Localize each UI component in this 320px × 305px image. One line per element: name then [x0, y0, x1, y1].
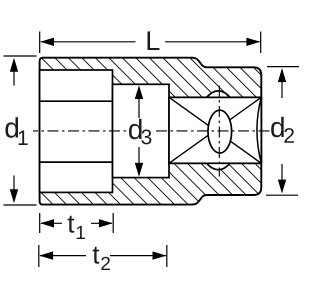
arrow L left — [40, 38, 54, 46]
square drive cavity (white) — [169, 97, 261, 163]
ball hole dome bottom — [207, 163, 230, 169]
hex cavity (white) — [40, 70, 113, 192]
t2 extension bar right — [166, 245, 168, 267]
d1 extension line top — [4, 55, 37, 57]
square drive diagonal 1 — [169, 97, 261, 163]
cavity bottom line redraw — [169, 162, 261, 164]
dimension L line left segment — [41, 41, 136, 43]
d2 extension line bottom — [266, 194, 298, 196]
d2 arrow down — [281, 164, 283, 192]
square drive diagonal 2 — [169, 97, 261, 163]
horizontal centerline — [33, 130, 128, 132]
ball hole dome top — [207, 91, 230, 97]
socket body section (hatched) — [40, 58, 262, 205]
t2 arrow right — [110, 255, 166, 257]
d1 extension line bottom — [4, 204, 37, 206]
label t2 — [93, 247, 100, 264]
vertical centerline (ball axis) — [218, 86, 220, 177]
t2 extension bar left — [38, 245, 40, 267]
label L — [148, 31, 160, 50]
dimension L extension bar right — [260, 32, 262, 54]
d1 arrow up — [13, 60, 15, 86]
t2 arrow left — [40, 255, 86, 257]
t1 extension bar right — [112, 213, 114, 233]
t1 arrow right — [91, 222, 112, 224]
d3 arrow up — [138, 88, 140, 118]
centerline right part — [156, 130, 272, 132]
cavity top line redraw — [169, 96, 261, 98]
label t1 — [68, 216, 75, 233]
dimension L line right segment — [165, 41, 259, 43]
d3 arrow down — [138, 147, 140, 174]
hex corner line upper — [40, 100, 113, 102]
hex corner line lower — [40, 161, 113, 163]
label d2 — [271, 117, 284, 138]
label d3 — [129, 119, 142, 140]
t1 extension bar left — [39, 213, 41, 233]
ball cross-bore ellipse — [208, 110, 232, 153]
d2 arrow up — [281, 70, 283, 98]
label d1 — [5, 117, 18, 138]
d2 extension line top — [267, 66, 299, 68]
d1 arrow down — [13, 176, 15, 202]
dimension L extension bar left — [39, 32, 41, 54]
arrow L right — [246, 38, 260, 46]
t1 arrow left — [41, 222, 62, 224]
end chamfer arc — [257, 97, 261, 163]
d3 bore (white) — [113, 84, 170, 177]
